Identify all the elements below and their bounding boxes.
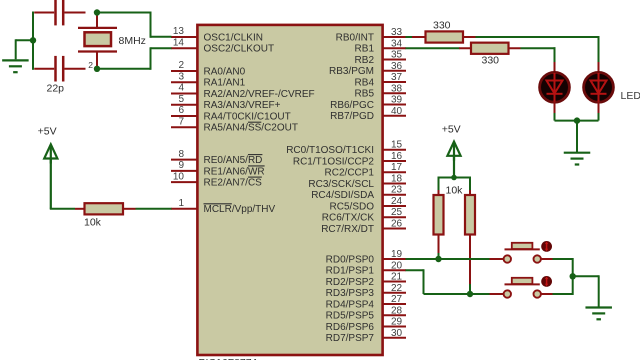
- wire: R2 to LED D1: [521, 47, 556, 49]
- U1 pin 30: [326, 328, 406, 344]
- U1 pin 3: [171, 71, 246, 88]
- U1 pin 2: [171, 60, 246, 77]
- wire: common to bottom ground: [573, 275, 599, 277]
- U1 pin 27: [326, 294, 406, 310]
- wire: pin34 to R2: [406, 47, 460, 49]
- U1 pin 5: [171, 94, 281, 111]
- ground G3 (buttons): [585, 308, 612, 320]
- wire: pin19 to button B1: [406, 258, 491, 260]
- svg-text:2: 2: [88, 60, 93, 70]
- wire: tee to ground stem: [16, 39, 33, 41]
- U1 pin 26: [321, 218, 406, 234]
- svg-text:RC0/T1OSO/T1CKI: RC0/T1OSO/T1CKI: [286, 145, 374, 156]
- U1 pin 36: [329, 61, 406, 77]
- resistor R5 bottom lead (crosses RD0 wire): [469, 235, 471, 286]
- U1 pin 22: [326, 283, 406, 299]
- svg-text:34: 34: [391, 38, 403, 49]
- U1 pin 18: [308, 173, 406, 189]
- wire: bottom node to OSC2 pin14: [97, 68, 151, 70]
- resistor R1 330 body: [426, 31, 464, 42]
- U1 pin 6: [171, 105, 291, 122]
- svg-text:RD4/PSP4: RD4/PSP4: [326, 299, 375, 310]
- svg-text:6: 6: [178, 105, 184, 116]
- svg-text:10k: 10k: [446, 184, 464, 196]
- junction dot at cap/ground tee: [30, 37, 36, 43]
- svg-text:RA4/T0CKI/C1OUT: RA4/T0CKI/C1OUT: [204, 111, 291, 122]
- svg-text:40: 40: [391, 106, 403, 117]
- svg-text:29: 29: [391, 317, 403, 328]
- resistor R4 bottom lead: [438, 235, 440, 255]
- svg-text:14: 14: [173, 38, 185, 49]
- svg-text:RC4/SDI/SDA: RC4/SDI/SDA: [311, 190, 374, 201]
- U1 pin 17: [325, 162, 406, 178]
- svg-text:RC3/SCK/SCL: RC3/SCK/SCL: [308, 179, 374, 190]
- U1 pin 7: [171, 116, 298, 133]
- svg-text:RA0/AN0: RA0/AN0: [204, 66, 246, 77]
- svg-text:24: 24: [391, 196, 403, 207]
- resistor R2 330 leads: [459, 47, 471, 49]
- U1 pin 19: [326, 249, 406, 265]
- wire: buttons common vertical: [553, 258, 573, 260]
- push button B2: [504, 276, 552, 298]
- svg-text:RB6/PGC: RB6/PGC: [330, 100, 374, 111]
- svg-text:38: 38: [391, 83, 403, 94]
- svg-text:RC6/TX/CK: RC6/TX/CK: [322, 213, 375, 224]
- svg-text:25: 25: [391, 207, 403, 218]
- svg-text:RA2/AN2/VREF-/CVREF: RA2/AN2/VREF-/CVREF: [204, 89, 315, 100]
- junction dot R4/RD0: [435, 256, 441, 262]
- ground G2 (LEDs): [564, 153, 591, 165]
- svg-text:33: 33: [391, 27, 403, 38]
- svg-text:RD6/PSP6: RD6/PSP6: [326, 322, 375, 333]
- svg-text:OSC2/CLKOUT: OSC2/CLKOUT: [204, 44, 275, 55]
- svg-text:9: 9: [178, 160, 184, 171]
- LED D2 cathode lead: [598, 102, 600, 114]
- svg-text:23: 23: [391, 185, 403, 196]
- svg-text:RD0/PSP0: RD0/PSP0: [326, 254, 375, 265]
- svg-text:26: 26: [391, 218, 403, 229]
- button B1 left lead: [490, 258, 504, 260]
- svg-text:37: 37: [391, 72, 403, 83]
- wire: +5V stem down to R3: [50, 208, 75, 210]
- wire: R3 to MCLR pin1: [136, 208, 172, 210]
- svg-text:18: 18: [391, 173, 403, 184]
- push button B1: [504, 241, 552, 263]
- U1 pin 9: [171, 160, 265, 177]
- svg-text:RD3/PSP3: RD3/PSP3: [326, 288, 375, 299]
- svg-text:RB5: RB5: [355, 89, 375, 100]
- svg-text:22p: 22p: [47, 82, 65, 94]
- svg-text:RB7/PGD: RB7/PGD: [330, 111, 374, 122]
- U1 pin 21: [326, 272, 406, 288]
- svg-text:36: 36: [391, 61, 403, 72]
- svg-text:RC2/CCP1: RC2/CCP1: [325, 168, 375, 179]
- svg-text:RC7/RX/DT: RC7/RX/DT: [321, 224, 374, 235]
- svg-text:2: 2: [178, 60, 184, 71]
- U1 pin 28: [326, 305, 406, 321]
- svg-text:330: 330: [482, 55, 500, 67]
- capacitor C1 (top 22p): [34, 0, 85, 25]
- U1 pin 1: [171, 198, 276, 215]
- button B1 right lead: [542, 258, 554, 260]
- svg-text:7: 7: [178, 116, 184, 127]
- wire: stem to LED ground: [576, 121, 578, 152]
- resistor R1 330 leads: [412, 36, 426, 38]
- svg-text:30: 30: [391, 328, 403, 339]
- svg-text:22: 22: [391, 283, 403, 294]
- svg-text:LED: LED: [621, 90, 640, 102]
- U1 pin 33: [336, 27, 406, 43]
- junction dot +5V tee: [451, 175, 457, 181]
- svg-text:RD5/PSP5: RD5/PSP5: [326, 311, 375, 322]
- U1 pin 16: [293, 151, 406, 167]
- svg-text:RB4: RB4: [355, 77, 375, 88]
- svg-text:RA3/AN3/VREF+: RA3/AN3/VREF+: [204, 100, 281, 111]
- svg-text:13: 13: [173, 26, 185, 37]
- LED D2: [584, 72, 614, 102]
- U1 pin 37: [355, 72, 406, 88]
- LED D1 cathode lead: [554, 102, 556, 114]
- wire: pin20 down and right to button B2: [406, 269, 424, 271]
- svg-text:15: 15: [391, 140, 403, 151]
- svg-text:RC5/SDO: RC5/SDO: [330, 201, 375, 212]
- svg-text:39: 39: [391, 95, 403, 106]
- U1 pin 23: [311, 185, 406, 201]
- svg-text:+5V: +5V: [442, 124, 461, 136]
- wire: tee to R4/R5 tops: [439, 177, 471, 179]
- svg-text:RC1/T1OSI/CCP2: RC1/T1OSI/CCP2: [293, 156, 375, 167]
- svg-text:21: 21: [391, 272, 403, 283]
- svg-text:1: 1: [178, 198, 184, 209]
- svg-text:+5V: +5V: [38, 126, 57, 138]
- svg-text:4: 4: [178, 83, 184, 94]
- power +5V left: [38, 126, 58, 209]
- svg-text:OSC1/CLKIN: OSC1/CLKIN: [204, 32, 263, 43]
- svg-text:8: 8: [178, 149, 184, 160]
- U1 pin 10: [171, 171, 262, 188]
- svg-text:RB3/PGM: RB3/PGM: [329, 66, 374, 77]
- svg-text:35: 35: [391, 50, 403, 61]
- U1 pin 40: [330, 106, 406, 122]
- wire: left vertical joining C1/C2: [32, 12, 34, 70]
- svg-text:RB1: RB1: [355, 44, 375, 55]
- LED D2 anode lead: [598, 62, 600, 73]
- svg-text:16: 16: [391, 151, 403, 162]
- svg-text:27: 27: [391, 294, 403, 305]
- junction dot LED ground tee: [574, 117, 580, 123]
- svg-text:RD7/PSP7: RD7/PSP7: [326, 333, 375, 344]
- resistor R3 10k body: [85, 203, 124, 214]
- wire: pin33 to R1: [406, 36, 414, 38]
- U1 pin 4: [171, 83, 315, 100]
- node: C1/X1 top junction: [94, 9, 100, 15]
- button B2 left lead: [490, 293, 504, 295]
- resistor R5 10k body: [465, 195, 475, 235]
- resistor R4 10k top lead: [438, 190, 440, 196]
- wire: LED cathodes to ground: [554, 113, 556, 121]
- svg-text:19: 19: [391, 249, 403, 260]
- svg-text:10k: 10k: [84, 216, 102, 228]
- node: C2/X1 bottom junction: [94, 66, 100, 72]
- U1 pin 15: [286, 140, 406, 156]
- svg-text:MCLR/Vpp/THV: MCLR/Vpp/THV: [204, 204, 276, 215]
- wire: R5 to RD1 net: [469, 284, 471, 294]
- ground G1 (crystal): [2, 60, 29, 72]
- U1 pin 38: [355, 83, 406, 99]
- svg-text:RE0/AN5/RD: RE0/AN5/RD: [204, 155, 263, 166]
- resistor R4 10k body: [434, 195, 444, 235]
- svg-text:3: 3: [178, 71, 184, 82]
- U1 pin 13: [171, 26, 263, 43]
- svg-text:RA1/AN1: RA1/AN1: [204, 78, 246, 89]
- junction dot R5/RD1: [467, 291, 473, 297]
- svg-text:10: 10: [173, 171, 185, 182]
- U1 pin 39: [330, 95, 406, 111]
- svg-text:5: 5: [178, 94, 184, 105]
- resistor R5 10k top lead: [469, 190, 471, 196]
- svg-text:28: 28: [391, 305, 403, 316]
- U1 pin 35: [355, 50, 406, 66]
- svg-text:8MHz: 8MHz: [119, 35, 146, 47]
- wire: R4 to RD0 net: [438, 253, 440, 259]
- U1 pin 34: [355, 38, 406, 54]
- U1 pin 29: [326, 317, 406, 333]
- capacitor C2 (bottom, 22p): [34, 56, 85, 82]
- svg-text:20: 20: [391, 260, 403, 271]
- svg-text:RE1/AN6/WR: RE1/AN6/WR: [204, 166, 265, 177]
- svg-text:RA5/AN4/SS/C2OUT: RA5/AN4/SS/C2OUT: [204, 123, 298, 134]
- junction dot buttons common: [570, 273, 576, 279]
- svg-text:330: 330: [433, 20, 451, 32]
- resistor R2 330 body: [471, 43, 509, 54]
- U1 pin 20: [326, 260, 406, 276]
- svg-text:RB2: RB2: [355, 55, 375, 66]
- resistor R3 10k leads: [75, 208, 85, 210]
- LED D1: [540, 72, 570, 102]
- button B2 right lead: [542, 293, 554, 295]
- svg-text:RE2/AN7/CS: RE2/AN7/CS: [204, 178, 263, 189]
- wire: R1 to LED D2: [476, 36, 600, 38]
- wire: top node to OSC1 pin13: [97, 12, 151, 14]
- svg-text:RB0/INT: RB0/INT: [336, 32, 374, 43]
- LED D1 anode lead: [554, 62, 556, 73]
- U1 pin 14: [171, 38, 274, 55]
- svg-text:RD2/PSP2: RD2/PSP2: [326, 277, 375, 288]
- chip U1 PIC16F877A body: [197, 25, 382, 360]
- crystal X1 8MHz: [78, 14, 117, 68]
- U1 pin 8: [171, 149, 262, 166]
- U1 pin 24: [330, 196, 406, 212]
- svg-text:RD1/PSP1: RD1/PSP1: [326, 266, 375, 277]
- U1 pin 25: [322, 207, 406, 223]
- power +5V right: [442, 124, 461, 178]
- svg-text:17: 17: [391, 162, 403, 173]
